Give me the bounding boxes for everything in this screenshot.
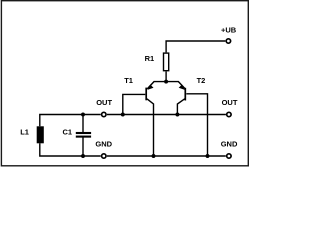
wire: mid rail center (OUT left to OUT right) (107, 114, 226, 116)
junction: T2 base on GND rail (206, 154, 210, 158)
wire: bottom rail left (L1 bottom to GND left) (40, 143, 101, 156)
svg-text:OUT: OUT (96, 98, 112, 107)
terminal GND left (102, 154, 106, 158)
wire: R1 bottom lead to emitter node (165, 72, 167, 82)
svg-text:OUT: OUT (222, 98, 238, 107)
terminal GND right (227, 154, 231, 158)
junction: T1 collector on GND rail (152, 154, 156, 158)
junction: C1 top on OUT rail (81, 113, 85, 117)
junction: T1 base on OUT rail (121, 113, 125, 117)
wire: C1 bottom lead (82, 137, 84, 156)
svg-text:GND: GND (95, 140, 112, 149)
junction: C1 bottom on GND rail (81, 154, 85, 158)
wire: C1 top lead (82, 115, 84, 134)
wire: +UB feed to R1 (166, 41, 225, 52)
svg-text:T2: T2 (197, 76, 206, 85)
resistor R1 (164, 53, 169, 71)
junction: emitter node (164, 80, 168, 84)
terminal +UB (226, 39, 230, 43)
svg-text:C1: C1 (63, 127, 73, 136)
svg-text:GND: GND (221, 140, 238, 149)
svg-text:R1: R1 (145, 54, 155, 63)
transistor T1 (123, 82, 166, 156)
wire: bottom rail center (GND left to GND right) (107, 155, 226, 157)
terminal OUT right (227, 112, 231, 116)
terminal OUT left (102, 112, 106, 116)
svg-text:+UB: +UB (221, 26, 237, 35)
transistor T2 (166, 82, 207, 156)
junction: T2 collector on OUT rail (175, 113, 179, 117)
capacitor C1 (76, 133, 91, 137)
svg-text:L1: L1 (20, 127, 29, 136)
wire: mid rail left (L1 top to OUT left) (40, 115, 101, 127)
svg-text:T1: T1 (124, 76, 133, 85)
inductor L1 (37, 126, 44, 143)
